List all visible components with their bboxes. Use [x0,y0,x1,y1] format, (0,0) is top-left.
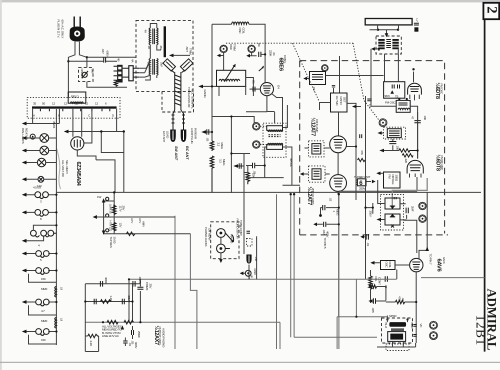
RF transformer box [396,100,410,112]
tube interconnect [337,153,339,175]
svg-text:1B: 1B [147,46,151,49]
wire pair from plug [68,42,87,98]
switch arm [225,233,232,249]
resistor on B- line [127,232,136,236]
svg-text:PHONO JACKS: PHONO JACKS [204,227,208,247]
antenna lead tip SW [170,130,176,143]
resistor R5 [246,173,250,185]
svg-text:TO PIN 7: TO PIN 7 [429,254,433,265]
svg-text:MDL TERMINAL: MDL TERMINAL [191,89,195,109]
svg-text:TRIM: TRIM [233,44,237,51]
svg-text:25V: 25V [112,205,116,210]
T3 wires [246,105,292,185]
svg-text:400V: 400V [326,231,330,237]
tone cap resistor pair [369,285,376,288]
terminal strip block B [129,66,133,81]
svg-text:RADIO: RADIO [230,235,234,244]
svg-text:CONV.: CONV. [283,55,287,64]
svg-text:MEG: MEG [222,159,226,166]
svg-text:ANT: ANT [185,47,189,53]
grid box [381,261,396,270]
svg-text:NO.47 (2): NO.47 (2) [25,128,29,140]
svg-text:1.2K: 1.2K [109,296,113,302]
arrow + cap row [238,165,245,167]
svg-text:40MF: 40MF [104,277,108,284]
capacitor line filter [104,57,106,62]
socket row 7 [22,329,58,344]
arrow terminal mid [368,300,370,302]
can input arrow [307,78,310,80]
svg-text:TO PIN 5: TO PIN 5 [323,238,327,249]
IF can upper [309,141,325,157]
right border line [484,18,486,352]
svg-text:2: 2 [484,6,500,13]
trimmer on can [321,65,328,72]
bypass cap [253,163,255,169]
svg-text:6AV6: 6AV6 [436,259,442,273]
plate return U-turn [365,19,412,25]
svg-text:455 KC: 455 KC [289,158,293,168]
plate hook [419,192,427,258]
svg-text:A7V: A7V [138,218,142,223]
tube V3 12AT7 lower [330,175,347,192]
svg-text:150MF: 150MF [145,282,149,291]
heater line y322 [85,321,280,323]
terminal note box [247,239,253,247]
socket row 2 [22,210,58,222]
PSU cap 2 [133,281,135,287]
jog to second vertical [212,117,254,194]
PSU mid rail [85,284,132,322]
svg-text:1W: 1W [97,195,101,199]
svg-text:FM OSC: FM OSC [385,101,396,105]
svg-text:150: 150 [41,277,46,281]
divider resistor R20b [112,223,116,231]
svg-text:SW ANT: SW ANT [174,146,178,161]
down arrow to transformer [386,30,388,34]
svg-text:PLUG IN 117 V.: PLUG IN 117 V. [57,20,61,39]
bus horizontal B- [56,191,481,193]
bracket with chassis arrows [104,202,134,234]
FM osc coil box [384,82,405,99]
can output wire [332,86,335,94]
speaker cone outline [386,344,409,351]
svg-text:MEG: MEG [336,209,340,216]
FM ant trimmer [379,119,387,127]
bridge to right [366,203,373,214]
svg-text:.02: .02 [329,198,333,202]
cap on mid rail [94,299,96,304]
alignment trimmer A2 [248,45,256,53]
plug P1 body [70,27,85,42]
speaker leads [377,341,416,347]
lamp row D [38,176,44,182]
svg-text:4B: 4B [117,58,121,61]
svg-text:ON-OFF: ON-OFF [80,69,84,80]
diode cell 2 [385,214,400,225]
top scanner gray band [0,0,500,2]
rectifier tube V6 [71,137,84,150]
svg-text:6AV6: 6AV6 [442,257,446,264]
resistor on mid rail [101,300,112,304]
transformer bottom arrow [374,49,398,54]
up arrow [121,325,124,329]
svg-text:25V: 25V [149,284,153,289]
arrow into transformer [173,54,190,56]
output transformer T6 dashed [382,318,413,343]
svg-text:40MF: 40MF [138,277,142,284]
svg-text:BLU: BLU [384,323,388,328]
mixer tube V1 6BE6 [260,83,273,96]
det output wire [404,220,417,253]
switch wafer box [357,179,366,186]
svg-text:250V: 250V [359,187,365,191]
heater string bar [32,106,117,108]
FM det transformer dashed [376,36,401,54]
svg-text:TONE CONT: TONE CONT [239,220,243,236]
winding connection wires [145,24,161,81]
svg-text:AUDIO PHONO: AUDIO PHONO [162,328,166,348]
svg-text:35-50: 35-50 [112,237,116,244]
svg-text:2.2: 2.2 [217,143,221,147]
top jog [370,29,399,31]
svg-text:ALL VOLT. DC: ALL VOLT. DC [61,160,65,178]
arrow terminal AVC [206,131,213,133]
supply verticals mid pair [291,194,377,337]
T3 secondary [268,143,283,144]
lower rail resistor [85,336,98,352]
osc feed vertical [211,24,213,141]
resistor R4 [210,156,214,192]
svg-text:G1: G1 [252,80,256,84]
loop shaft [175,72,181,110]
svg-text:150: 150 [41,338,46,342]
grid box lower [384,172,401,188]
svg-text:OSC: OSC [385,262,389,269]
stage verticals [175,216,197,349]
alignment hex points audio [430,321,438,329]
tube V2 12AT7 upper [330,136,347,153]
svg-text:35W4: 35W4 [52,121,56,129]
svg-text:DIAL LAMPS: DIAL LAMPS [21,128,25,144]
osc coil L3 [232,22,250,24]
svg-text:3.3: 3.3 [219,159,223,163]
svg-text:600V: 600V [134,342,138,348]
resistor R3 [210,141,214,151]
6DT8 osc triode dome [408,83,422,94]
drop wires from string [33,109,124,193]
plug P1 prongs [74,17,80,28]
alignment hex points [419,202,427,210]
field coil box [68,92,86,103]
svg-text:+40: +40 [254,257,258,262]
svg-text:600V: 600V [106,51,110,57]
gnd cap [123,341,127,343]
terminal strip block A [117,65,123,83]
tube V4 6DT8 half [407,160,423,173]
svg-text:PHONO SW ON: PHONO SW ON [236,219,240,239]
svg-text:2MF: 2MF [411,206,415,212]
svg-text:4A: 4A [144,30,148,33]
coupling cap [259,52,261,57]
IF can lower [309,166,326,182]
wire to line cap [68,60,117,62]
svg-text:.047: .047 [322,230,326,236]
socket row 1 [22,192,58,204]
osc box feeds [326,49,399,106]
box wires [371,106,418,158]
svg-text:300Ω: 300Ω [395,175,399,182]
plate line into mixer [249,24,265,82]
cathode bits [132,330,134,335]
PSU top line [85,283,140,285]
dashed extension around loopstick [162,91,194,112]
wire below switch [87,82,127,88]
resistor line ballast [114,81,117,87]
svg-text:10.7 MC: 10.7 MC [335,96,339,107]
svg-text:CONT: CONT [378,277,382,285]
cap C8 [207,129,209,135]
svg-text:-B: -B [250,275,253,279]
osc feed line [212,23,232,25]
link down to RF box [384,54,386,82]
T3 primary [267,126,283,131]
svg-text:FM OSC: FM OSC [440,84,444,95]
T6 primary [389,322,406,327]
svg-text:47K: 47K [360,150,364,155]
page number box 2 [483,3,499,19]
arrow at top [356,106,361,108]
transformer T1 lower secondary [157,59,158,76]
jack riser [256,236,258,279]
svg-text:2ND AF AMPL: 2ND AF AMPL [311,188,315,206]
svg-text:220: 220 [404,159,408,164]
cap top right [367,99,371,101]
coupling parts between verticals [360,134,362,138]
bus vertical [55,109,57,345]
PSU filter cap 1 [100,281,102,287]
svg-text:.047: .047 [101,49,105,55]
plate resistor 470K [395,300,404,303]
feedthrough on shield [364,236,366,238]
core bar [164,26,166,57]
svg-text:GANG: GANG [203,90,207,99]
resistor R11 [402,154,413,157]
svg-text:TAP RES: TAP RES [109,237,113,248]
divider main wire [113,192,115,233]
on-off switch S1 [79,67,94,81]
svg-text:.005: .005 [371,308,375,314]
svg-text:.01: .01 [401,298,405,302]
speaker pair [337,317,387,349]
transformer T1 lower primary [149,59,150,76]
osc tuning box [217,70,246,86]
divider resistor R20a [112,205,116,214]
resistor R10 [399,149,418,152]
AVC line [246,178,300,186]
svg-text:.05: .05 [131,341,135,345]
svg-text:MMF: MMF [41,287,48,291]
arrow chassis left [26,123,59,125]
svg-text:25V: 25V [122,206,126,211]
heater rail resistors [107,320,118,324]
B- bus lower [129,278,397,280]
svg-text:12V: 12V [119,223,123,228]
cap below coil [392,139,394,151]
socket row 6 [22,299,58,323]
dotted enclosure [27,98,120,119]
svg-text:.01: .01 [272,52,276,56]
heater return line [68,131,124,133]
plate feed gray wire [392,178,427,198]
det right cap [400,204,407,220]
wires from osc box [219,78,253,97]
svg-text:TO CHASSIS OF: TO CHASSIS OF [187,87,191,108]
grid cap [414,121,420,123]
svg-text:DET: DET [343,97,347,103]
antenna lead tip BC [181,130,187,143]
svg-text:A: A [33,114,35,118]
phono jack bottom [245,270,251,276]
svg-text:MEG: MEG [220,143,224,150]
slug trimmers [252,123,260,131]
svg-text:20MF: 20MF [127,296,131,303]
det dotted box [381,195,404,231]
plate load line [415,272,417,343]
svg-text:4A: 4A [131,59,135,62]
T6 terminals [386,318,388,320]
svg-text:.05: .05 [253,171,257,175]
socket row 5 [22,268,58,291]
loop antenna plug Y [163,59,176,71]
det arrow [381,219,386,221]
svg-text:IN REAR: IN REAR [194,128,198,140]
bottom rule [0,362,500,363]
choke L9 on bus [55,317,57,328]
svg-text:2.2K: 2.2K [89,341,93,347]
supply verticals left pair [277,194,281,349]
svg-text:LOOP PLUG: LOOP PLUG [190,128,194,144]
socket row 4 [22,251,58,262]
svg-text:LINE 117V AC: LINE 117V AC [102,334,120,338]
svg-text:SPKR: SPKR [389,314,397,318]
svg-text:25MF: 25MF [137,331,141,338]
coupling cap [326,207,339,209]
svg-text:250V: 250V [369,211,373,217]
volume control [369,276,372,289]
variable arrow [259,68,263,71]
ratio det transformer box [331,93,348,112]
svg-text:OUTPUT AMPL: OUTPUT AMPL [158,327,162,346]
chassis arrow at osc [203,85,217,87]
svg-text:G4: G4 [277,85,281,89]
line cap on bus [385,276,387,282]
svg-text:EXT ANT: EXT ANT [162,131,166,142]
junction on IF line [231,153,250,155]
FM ant coil [384,127,406,139]
transformer T1 upper primary [149,28,150,45]
jack J2 [217,244,226,253]
box side wires [320,103,357,147]
svg-text:ON REAR: ON REAR [208,228,212,241]
svg-text:4.7: 4.7 [41,309,45,313]
socket row 3 triple [22,224,58,247]
svg-text:FM RF AMP: FM RF AMP [440,156,444,171]
feed from bus up to grid box [396,270,398,280]
svg-text:SW: SW [91,69,95,74]
right verticals [347,96,366,279]
svg-text:60∿ A.C. ONLY: 60∿ A.C. ONLY [61,20,65,39]
svg-text:COIL: COIL [242,28,246,35]
svg-text:MMF: MMF [41,319,48,323]
svg-text:.01: .01 [366,243,370,247]
svg-text:220K: 220K [269,50,273,56]
svg-text:COIL: COIL [388,262,392,269]
svg-text:DIPOLE: DIPOLE [391,175,395,185]
tube V5 6AV6 [410,258,423,271]
FM IF can 1 [310,72,326,85]
svg-text:4 5 6 8: 4 5 6 8 [33,186,41,190]
svg-text:LEAD: LEAD [166,131,170,139]
svg-text:98.6: 98.6 [385,94,391,98]
det left wire [378,180,385,204]
svg-text:470K: 470K [398,296,402,302]
tap circles [106,197,109,200]
diode cell 1 [385,198,400,209]
second bus wire [339,190,417,192]
voice coil ticks [413,325,416,337]
svg-text:AMV: AMV [142,221,146,227]
left scanner gray edge [0,0,2,370]
svg-text:.05: .05 [206,138,210,142]
svg-text:OSC: OSC [229,44,233,51]
pilot lamp circles [30,134,35,139]
svg-text:100: 100 [423,116,427,121]
N left cluster cap [129,279,140,322]
svg-text:A7V: A7V [130,218,134,223]
plate supply line [339,56,341,93]
jack J1 [217,229,226,238]
T6 secondary [388,332,406,342]
svg-text:RATIO: RATIO [339,97,343,106]
transformer T1 upper secondary [157,28,158,45]
svg-text:OSC: OSC [238,28,242,35]
cap 3 [122,299,124,304]
svg-text:TRIM: TRIM [189,48,193,55]
crease artifact [57,149,61,189]
svg-text:12B1: 12B1 [474,315,489,346]
alignment trimmer A1 [220,45,228,53]
grid line vertical [338,194,340,316]
svg-text:6BE6: 6BE6 [278,58,284,72]
choke L8 on bus [55,286,57,297]
svg-text:FM IF AMP: FM IF AMP [315,119,319,132]
svg-text:6Z34/5A84: 6Z34/5A84 [75,162,81,186]
junction [67,60,69,62]
electrolytic drop [248,265,250,280]
cathode cap [317,223,339,225]
svg-text:BC ANT: BC ANT [185,146,189,160]
lamp arrows [26,138,40,163]
mixer plate wire [267,94,283,129]
svg-text:HTR 121: HTR 121 [109,221,113,232]
